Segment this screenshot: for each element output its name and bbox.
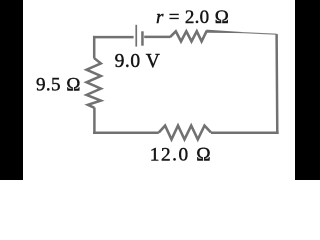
svg-text:12.0 Ω: 12.0 Ω bbox=[150, 145, 213, 166]
svg-text:r = 2.0 Ω: r = 2.0 Ω bbox=[156, 7, 229, 28]
wire bottom-left horizontal bbox=[93, 131, 159, 134]
resistor 12.0 ohm zigzag bbox=[159, 126, 211, 140]
battery U1 long plate (positive) bbox=[135, 25, 137, 47]
wire left vertical (top stub to resistor) bbox=[93, 36, 96, 59]
right black pillar bbox=[295, 0, 320, 180]
wire bottom-right horizontal bbox=[211, 131, 279, 134]
wire right vertical bbox=[275, 34, 278, 134]
wire thin diagonal to top-right corner bbox=[241, 33, 277, 35]
resistor r 2.0 ohm zigzag bbox=[170, 31, 207, 42]
battery U1 short plate (negative) bbox=[141, 31, 144, 45]
svg-text:9.5 Ω: 9.5 Ω bbox=[36, 75, 81, 96]
resistor R 9.5 ohm zigzag bbox=[87, 58, 101, 108]
wire top-left horizontal bbox=[93, 36, 134, 39]
svg-text:9.0 V: 9.0 V bbox=[115, 51, 161, 72]
wire left vertical (resistor to bottom corner) bbox=[93, 108, 96, 134]
left black pillar bbox=[0, 0, 23, 180]
wire wedge from resistor r to top-right corner bbox=[206, 30, 242, 33]
wire battery to resistor r bbox=[144, 36, 170, 39]
